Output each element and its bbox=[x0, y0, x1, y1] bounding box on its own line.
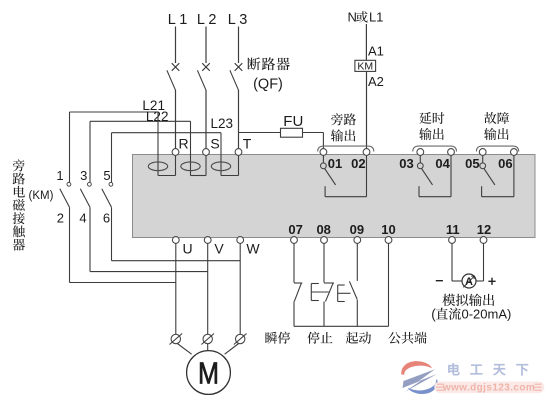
svg-text:N: N bbox=[348, 10, 357, 25]
terminal W bbox=[237, 237, 244, 244]
cable lug U bbox=[170, 334, 183, 345]
label (KM) bbox=[29, 190, 54, 202]
pin 10 label bbox=[381, 222, 395, 237]
pushbutton SB2 停止 (NC) bbox=[311, 283, 334, 301]
watermark 电工天下 bbox=[448, 363, 528, 376]
wire N to coil A1 bbox=[365, 24, 367, 60]
wire lug U to motor bbox=[177, 344, 191, 355]
label 模拟输出 bbox=[442, 294, 494, 307]
terminal 07 bbox=[291, 237, 298, 244]
svg-text:L23: L23 bbox=[211, 116, 234, 131]
terminal S bbox=[203, 149, 210, 156]
wire L3 to breaker bbox=[238, 27, 240, 64]
svg-text:V: V bbox=[214, 240, 224, 256]
terminal 04 bbox=[448, 149, 455, 156]
terminal R label bbox=[178, 136, 188, 152]
svg-text:1: 1 bbox=[56, 168, 63, 183]
svg-text:S: S bbox=[210, 136, 219, 152]
wire bypass loop phase S bbox=[191, 121, 207, 175]
CT ellipse phase S bbox=[181, 162, 200, 171]
relay contact 03-04 (delay output) bbox=[417, 155, 451, 196]
pin 11 label bbox=[446, 222, 460, 237]
pushbutton SB3 起动 (NO) bbox=[338, 281, 358, 301]
wire coil A2 to terminal 02 bbox=[366, 71, 368, 148]
wire SB2 to common bus bbox=[323, 302, 325, 327]
svg-text:KM: KM bbox=[357, 61, 373, 73]
svg-text:T: T bbox=[243, 136, 252, 152]
CT ellipse phase T bbox=[211, 162, 230, 171]
wire breaker pole 3 to terminal bbox=[238, 90, 240, 149]
svg-text:3: 3 bbox=[80, 168, 87, 183]
terminal 12 bbox=[480, 237, 487, 244]
watermark logo bbox=[401, 361, 437, 394]
pin 09 label bbox=[350, 222, 364, 237]
wire 09 down bbox=[356, 243, 358, 281]
pin 2 label bbox=[57, 211, 64, 226]
svg-text:12: 12 bbox=[477, 222, 491, 237]
pin 07 label bbox=[288, 222, 302, 237]
wire L2 to breaker bbox=[205, 27, 207, 64]
terminal V bbox=[204, 237, 211, 244]
KM contact 5-6 bbox=[102, 182, 113, 207]
wire L21 horizontal bbox=[70, 111, 159, 113]
pin 6 label bbox=[103, 211, 110, 226]
svg-text:6: 6 bbox=[103, 211, 110, 226]
relay contact 05-06 (fault output) bbox=[480, 155, 514, 196]
node L3 label bbox=[228, 12, 248, 28]
svg-text:06: 06 bbox=[498, 156, 512, 171]
wire L23 to KM contact 5 bbox=[111, 133, 113, 183]
svg-text:R: R bbox=[178, 136, 188, 152]
svg-text:07: 07 bbox=[288, 222, 302, 237]
terminal 09 bbox=[354, 237, 361, 244]
node L22 label bbox=[146, 109, 169, 124]
wire V to motor lug bbox=[207, 243, 209, 334]
wire 10 common bbox=[388, 243, 390, 326]
svg-text:FU: FU bbox=[283, 113, 303, 130]
svg-text:(: ( bbox=[431, 306, 436, 321]
socket bracket 01-02 bbox=[318, 146, 374, 151]
terminal 08 bbox=[321, 237, 328, 244]
breaker QF pole 1 bbox=[167, 63, 179, 90]
svg-text:www.dgjs123.com: www.dgjs123.com bbox=[442, 382, 535, 393]
pin 01 label bbox=[328, 156, 342, 171]
wire 12 to ammeter bbox=[476, 243, 483, 281]
svg-text:(KM): (KM) bbox=[29, 190, 54, 202]
terminal U bbox=[172, 237, 179, 244]
node L1 label bbox=[168, 12, 188, 28]
pin 12 label bbox=[477, 222, 491, 237]
wire L21 to KM contact 1 bbox=[69, 112, 71, 182]
ammeter A bbox=[462, 274, 476, 288]
svg-text:11: 11 bbox=[446, 222, 460, 237]
wire breaker pole 1 to terminal bbox=[175, 90, 177, 149]
terminal 05 bbox=[479, 149, 486, 156]
terminal 02 bbox=[363, 149, 370, 156]
socket bracket 03-04 bbox=[413, 146, 457, 151]
pin 02 label bbox=[351, 156, 365, 171]
wire 08 down bbox=[323, 243, 325, 282]
svg-text:04: 04 bbox=[435, 156, 450, 171]
label 瞬停 bbox=[265, 332, 290, 344]
socket bracket 05-06 bbox=[476, 146, 518, 151]
wire fuse to terminal 01 bbox=[303, 133, 324, 149]
pushbutton SB1 瞬停 (NC) bbox=[294, 283, 302, 301]
terminal 01 bbox=[320, 149, 327, 156]
motor M bbox=[187, 351, 231, 395]
breaker QF pole 2 bbox=[197, 63, 209, 90]
terminal R bbox=[172, 149, 179, 156]
pin 06 label bbox=[498, 156, 512, 171]
terminal W label bbox=[246, 240, 260, 256]
wire L22 horizontal bbox=[90, 120, 191, 122]
svg-text:L 3: L 3 bbox=[228, 12, 248, 28]
svg-text:02: 02 bbox=[351, 156, 365, 171]
terminal V label bbox=[214, 240, 224, 256]
wire L23 horizontal bbox=[112, 132, 222, 134]
pin 08 label bbox=[316, 222, 330, 237]
svg-text:A2: A2 bbox=[368, 74, 384, 89]
fuse FU bbox=[281, 128, 303, 137]
svg-text:0-20mA): 0-20mA) bbox=[462, 306, 512, 321]
wire L1 to breaker bbox=[175, 27, 177, 64]
cable lug V bbox=[201, 334, 214, 345]
pin A1 label bbox=[368, 43, 384, 58]
label 起动 bbox=[346, 332, 371, 344]
svg-text:L1: L1 bbox=[369, 10, 383, 25]
watermark www band bbox=[434, 382, 544, 394]
label 旁路输出 bbox=[331, 113, 356, 141]
svg-text:L 2: L 2 bbox=[197, 12, 217, 28]
wire KM contact 6 to motor lead bbox=[112, 207, 241, 260]
label 延时输出 bbox=[419, 112, 444, 140]
node L23 label bbox=[211, 116, 234, 131]
svg-text:W: W bbox=[246, 240, 260, 256]
label 故障输出 bbox=[484, 112, 509, 140]
terminal 03 bbox=[417, 149, 424, 156]
label 旁路电磁接触器 (vertical) bbox=[13, 159, 25, 250]
terminal T label bbox=[243, 136, 252, 152]
wire bypass loop phase T bbox=[221, 133, 239, 176]
wire SB1 to common bus bbox=[293, 302, 295, 327]
node N或L1 label bbox=[348, 10, 384, 25]
svg-text:A1: A1 bbox=[368, 43, 384, 58]
wire lug W to motor bbox=[225, 344, 239, 355]
pin 3 label bbox=[80, 168, 87, 183]
label 停止 bbox=[307, 332, 332, 344]
terminal 06 bbox=[511, 149, 518, 156]
terminal 10 bbox=[385, 237, 392, 244]
wire 11 to ammeter bbox=[452, 243, 462, 281]
pin 05 label bbox=[465, 156, 479, 171]
breaker QF pole 3 bbox=[230, 63, 242, 90]
svg-text:L 1: L 1 bbox=[168, 12, 188, 28]
label (QF) bbox=[253, 76, 283, 92]
wire T to fuse bbox=[239, 132, 281, 134]
svg-text:08: 08 bbox=[316, 222, 330, 237]
pin 1 label bbox=[56, 168, 63, 183]
wire breaker pole 2 to terminal bbox=[205, 90, 207, 149]
wire W to motor lug bbox=[239, 243, 241, 334]
wire 07 down bbox=[293, 243, 295, 282]
KM contact 1-2 bbox=[60, 182, 71, 207]
terminal U label bbox=[182, 240, 192, 256]
KM contact 3-4 bbox=[80, 182, 91, 207]
cable lug W bbox=[234, 334, 247, 345]
wire KM contact 4 to motor lead bbox=[90, 207, 208, 271]
pin 4 label bbox=[79, 211, 86, 226]
pin 04 label bbox=[435, 156, 450, 171]
terminal 11 bbox=[449, 237, 456, 244]
label FU bbox=[283, 113, 303, 130]
svg-text:10: 10 bbox=[381, 222, 395, 237]
svg-text:(QF): (QF) bbox=[253, 76, 283, 92]
wire KM contact 2 to motor lead bbox=[70, 207, 176, 282]
terminal T bbox=[235, 149, 242, 156]
svg-text:M: M bbox=[198, 356, 219, 391]
svg-text:L22: L22 bbox=[146, 109, 169, 124]
soft starter body U0 bbox=[133, 155, 536, 238]
node L21 label bbox=[142, 98, 165, 113]
label 直流0-20mA bbox=[431, 306, 511, 321]
svg-text:2: 2 bbox=[57, 211, 64, 226]
contactor coil KM bbox=[355, 60, 376, 72]
wire bypass loop phase R bbox=[158, 112, 176, 176]
svg-text:U: U bbox=[182, 240, 192, 256]
pin 5 label bbox=[103, 168, 110, 183]
wire U to motor lug bbox=[175, 243, 177, 334]
pin A2 label bbox=[368, 74, 384, 89]
svg-text:05: 05 bbox=[465, 156, 479, 171]
label 断路器 bbox=[247, 57, 289, 70]
node L2 label bbox=[197, 12, 217, 28]
svg-text:03: 03 bbox=[399, 156, 413, 171]
terminal S label bbox=[210, 136, 219, 152]
svg-text:01: 01 bbox=[328, 156, 342, 171]
CT ellipse phase R bbox=[148, 162, 167, 171]
relay contact 01-02 (bypass output) bbox=[321, 155, 367, 196]
label minus bbox=[436, 280, 443, 282]
svg-text:4: 4 bbox=[79, 211, 86, 226]
wire lug V to motor bbox=[207, 344, 209, 351]
label plus bbox=[488, 278, 495, 285]
wire common bus bbox=[294, 325, 389, 327]
svg-text:5: 5 bbox=[103, 168, 110, 183]
label 公共端 bbox=[388, 332, 426, 344]
pin 03 label bbox=[399, 156, 413, 171]
wire SB3 to common bus bbox=[356, 300, 358, 326]
wire L22 to KM contact 3 bbox=[89, 121, 91, 182]
svg-text:09: 09 bbox=[350, 222, 364, 237]
